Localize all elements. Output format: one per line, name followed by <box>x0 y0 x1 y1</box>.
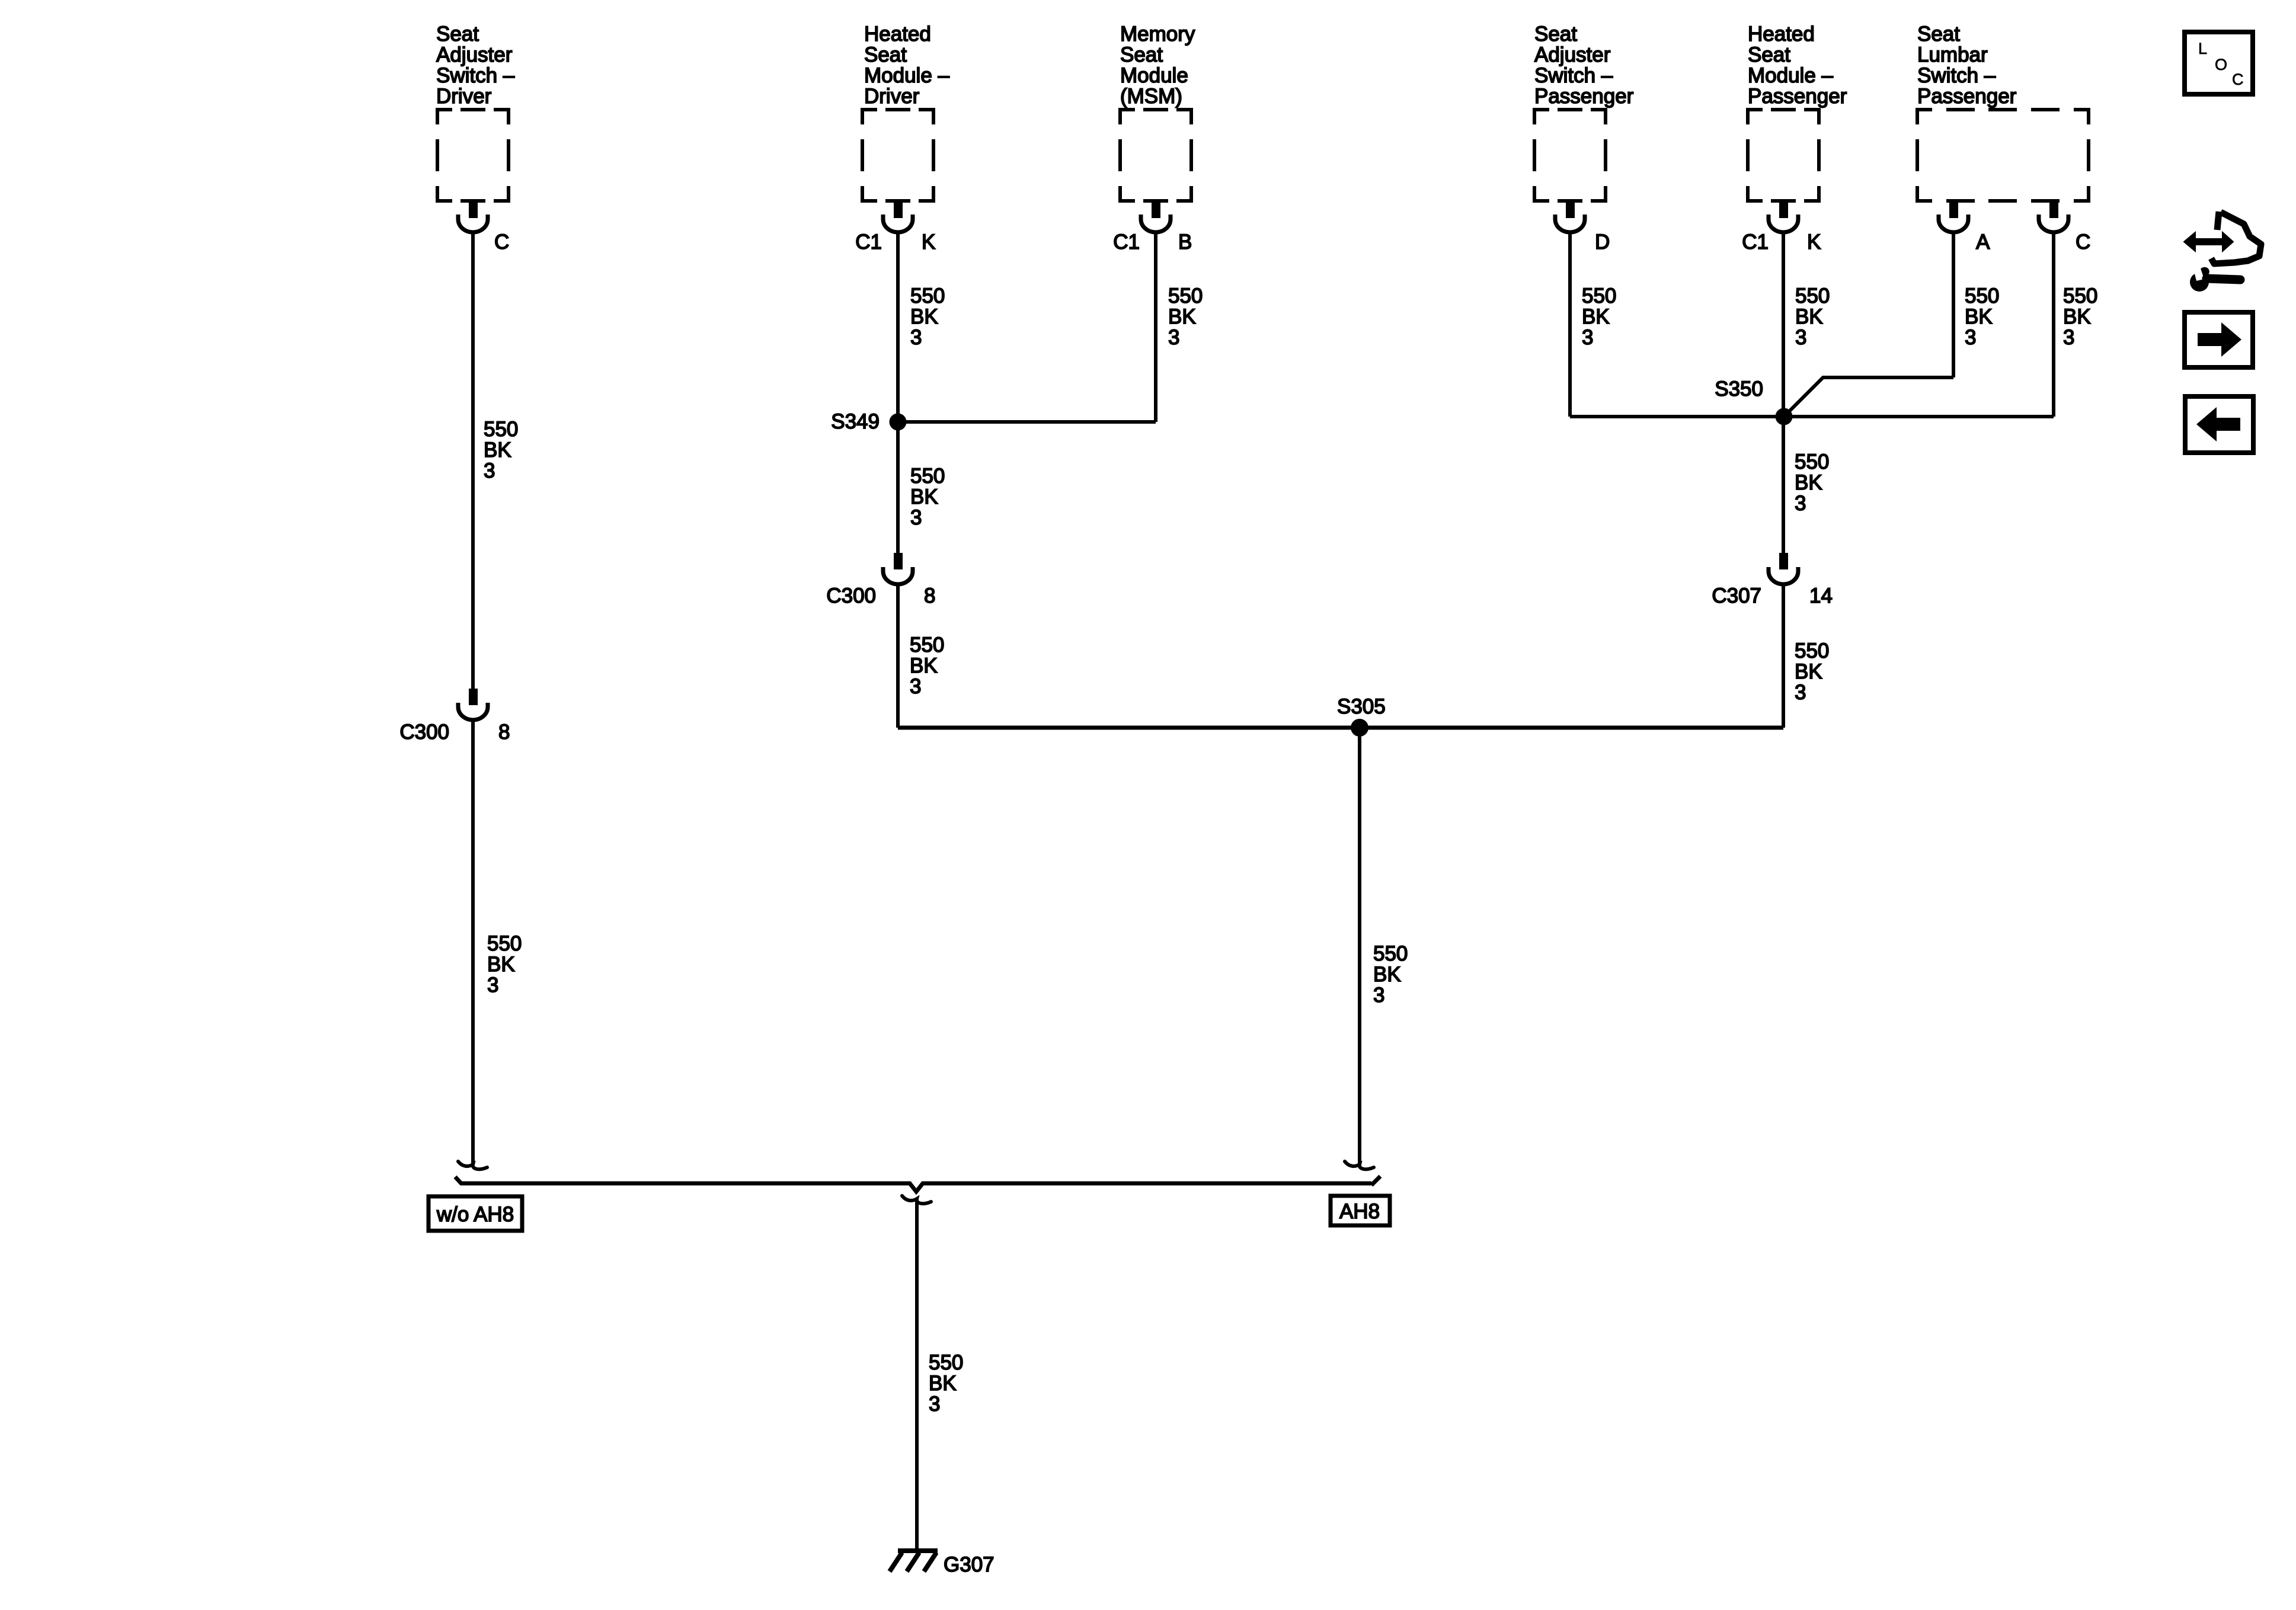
wire end squiggle (AH8 branch) <box>1345 1161 1374 1169</box>
wire 550 BK 3 from bus down to ground G307 <box>915 1199 919 1550</box>
wire end squiggle (w/o AH8 branch) <box>458 1161 487 1169</box>
inline connector C300 pin 8 (driver branch) <box>469 689 478 705</box>
wire 550 BK 3 from S305 down to AH8 bus <box>1358 728 1361 1165</box>
svg-text:Lumbar: Lumbar <box>1917 43 1988 66</box>
svg-text:3: 3 <box>1965 326 1976 349</box>
svg-text:Driver: Driver <box>436 85 492 108</box>
svg-text:BK: BK <box>1795 660 1822 683</box>
wire: horizontal run D to C through splice S350 <box>1570 415 2054 418</box>
wire 550 BK 3 from MSM pin B down to splice S349 <box>1154 232 1157 422</box>
inline connector C300 pin 8 (HSM driver branch) <box>894 553 903 569</box>
svg-text:BK: BK <box>2063 305 2091 328</box>
svg-text:S350: S350 <box>1715 377 1763 401</box>
svg-text:3: 3 <box>487 974 498 997</box>
dashed box: Heated Seat Module - Passenger <box>1748 110 1819 201</box>
svg-text:G307: G307 <box>944 1553 994 1576</box>
svg-text:3: 3 <box>910 326 922 349</box>
svg-text:Heated: Heated <box>864 23 931 46</box>
svg-text:Seat: Seat <box>864 43 907 66</box>
svg-text:L: L <box>2198 40 2207 57</box>
svg-text:550: 550 <box>1795 639 1829 662</box>
svg-text:3: 3 <box>2063 326 2074 349</box>
svg-text:Adjuster: Adjuster <box>436 43 513 66</box>
dashed box: Memory Seat Module <box>1120 110 1191 201</box>
wire: upper branch from S350 to lumbar pin A (diagonal + horizontal) <box>1784 377 1953 417</box>
svg-text:8: 8 <box>924 584 935 607</box>
connector pin A of Seat Lumbar Switch <box>1949 201 1958 218</box>
svg-text:550: 550 <box>484 418 518 441</box>
svg-text:550: 550 <box>1373 942 1408 965</box>
svg-text:A: A <box>1976 231 1990 254</box>
svg-text:Driver: Driver <box>864 85 920 108</box>
dashed box: Heated Seat Module - Driver <box>862 110 933 201</box>
svg-text:C: C <box>494 231 509 254</box>
wire 550 BK 3 from S350 down to C307 <box>1782 417 1785 553</box>
svg-text:BK: BK <box>1582 305 1610 328</box>
svg-text:BK: BK <box>910 485 938 508</box>
svg-text:D: D <box>1595 231 1610 254</box>
svg-text:w/o AH8: w/o AH8 <box>436 1203 514 1226</box>
wire 550 BK 3 from S349 down to C300 <box>896 422 900 553</box>
svg-text:BK: BK <box>910 305 938 328</box>
connector pin K of Heated Seat Module - Driver (connector C1) <box>894 201 903 218</box>
svg-text:C1: C1 <box>1742 231 1769 254</box>
inline connector C307 pin 14 <box>1779 553 1788 569</box>
svg-text:C300: C300 <box>826 584 876 607</box>
svg-text:BK: BK <box>1965 305 1993 328</box>
wire 550 BK 3 from driver switch pin C down to C300 <box>471 232 475 689</box>
bus wire with option split (w/o AH8 left, AH8 right) <box>455 1176 1380 1192</box>
svg-text:BK: BK <box>910 654 938 677</box>
svg-text:BK: BK <box>929 1372 957 1395</box>
forward arrow button <box>2185 312 2253 367</box>
svg-text:Passenger: Passenger <box>1534 85 1634 108</box>
svg-text:C: C <box>2076 231 2090 254</box>
svg-text:C: C <box>2232 71 2244 88</box>
svg-text:3: 3 <box>929 1393 940 1416</box>
svg-text:C307: C307 <box>1712 584 1761 607</box>
option box w/o AH8 <box>428 1196 522 1231</box>
wire 550 BK 3 from HSM-Driver pin K down to splice S349 <box>896 232 900 422</box>
wire from splice S349 to Memory Seat Module <box>898 420 1156 424</box>
svg-text:550: 550 <box>929 1351 963 1374</box>
svg-text:3: 3 <box>910 506 922 529</box>
wire 550 BK 3 from lumbar pin C down to splice S350 <box>2052 232 2055 417</box>
harness repair icon (double arrow, harness outline, wrench) <box>2184 212 2261 292</box>
svg-text:550: 550 <box>1795 284 1830 308</box>
svg-text:B: B <box>1178 231 1192 254</box>
svg-text:550: 550 <box>910 633 944 657</box>
svg-text:Switch –: Switch – <box>1917 64 1996 87</box>
svg-text:Seat: Seat <box>1917 23 1960 46</box>
svg-text:550: 550 <box>1582 284 1616 308</box>
wire 550 BK 3 from C300 down to splice S305 line <box>896 584 900 728</box>
svg-text:550: 550 <box>2063 284 2097 308</box>
svg-text:3: 3 <box>1582 326 1593 349</box>
connector pin C of Seat Adjuster Switch - Driver <box>469 201 478 218</box>
dashed box: Seat Lumbar Switch - Passenger <box>1917 110 2089 201</box>
connector pin K of Heated Seat Module - Passenger (connector C1) <box>1779 201 1788 218</box>
svg-text:BK: BK <box>1168 305 1196 328</box>
svg-text:Switch –: Switch – <box>1534 64 1613 87</box>
connector pin B of Memory Seat Module (connector C1) <box>1152 201 1160 218</box>
svg-text:O: O <box>2215 56 2227 73</box>
svg-text:3: 3 <box>1795 492 1806 515</box>
LOC legend icon <box>2185 32 2253 94</box>
svg-text:Memory: Memory <box>1120 23 1195 46</box>
svg-text:S349: S349 <box>831 410 880 433</box>
dashed box: Seat Adjuster Switch - Driver <box>437 110 509 201</box>
svg-text:K: K <box>922 231 935 254</box>
svg-text:8: 8 <box>498 721 510 744</box>
svg-text:550: 550 <box>1168 284 1203 308</box>
svg-text:BK: BK <box>484 438 511 462</box>
svg-text:550: 550 <box>910 465 945 488</box>
svg-text:3: 3 <box>484 459 495 482</box>
svg-text:550: 550 <box>910 284 945 308</box>
svg-text:3: 3 <box>1795 681 1806 704</box>
svg-text:3: 3 <box>1168 326 1179 349</box>
svg-text:(MSM): (MSM) <box>1120 85 1182 108</box>
svg-text:Seat: Seat <box>436 23 479 46</box>
svg-text:Heated: Heated <box>1748 23 1815 46</box>
svg-text:Seat: Seat <box>1748 43 1790 66</box>
svg-text:3: 3 <box>910 675 921 698</box>
svg-text:550: 550 <box>1795 450 1829 473</box>
dashed box: Seat Adjuster Switch - Passenger <box>1534 110 1606 201</box>
svg-text:Seat: Seat <box>1534 23 1577 46</box>
svg-text:AH8: AH8 <box>1339 1200 1380 1223</box>
wire: horizontal run between C300 branch and C307 branch through splice S305 <box>898 726 1783 730</box>
svg-text:K: K <box>1807 231 1821 254</box>
svg-text:BK: BK <box>1795 305 1823 328</box>
splice S305 junction dot <box>1351 719 1368 737</box>
wire 550 BK 3 from C307 down to splice S305 line <box>1782 584 1785 728</box>
back arrow button <box>2185 396 2253 453</box>
splice S350 junction dot <box>1776 408 1793 425</box>
squiggle at top of ground wire <box>902 1196 931 1204</box>
svg-text:Adjuster: Adjuster <box>1534 43 1611 66</box>
wire 550 BK 3 from lumbar pin A down to S350 upper branch <box>1952 232 1955 377</box>
svg-text:Switch –: Switch – <box>436 64 515 87</box>
svg-text:Passenger: Passenger <box>1917 85 2017 108</box>
splice S349 junction dot <box>890 414 907 431</box>
svg-text:Module –: Module – <box>864 64 950 87</box>
svg-text:14: 14 <box>1809 584 1833 607</box>
svg-text:550: 550 <box>1965 284 1999 308</box>
svg-text:C1: C1 <box>855 231 882 254</box>
connector pin C of Seat Lumbar Switch <box>2049 201 2058 218</box>
svg-text:BK: BK <box>1795 471 1822 494</box>
svg-text:550: 550 <box>487 932 522 955</box>
svg-text:BK: BK <box>487 953 515 976</box>
svg-text:Passenger: Passenger <box>1748 85 1847 108</box>
option box AH8 <box>1331 1196 1390 1225</box>
svg-text:C300: C300 <box>399 721 449 744</box>
ground symbol G307 <box>890 1551 938 1571</box>
svg-text:Seat: Seat <box>1120 43 1163 66</box>
svg-text:BK: BK <box>1373 963 1401 986</box>
svg-text:Module –: Module – <box>1748 64 1834 87</box>
wire 550 BK 3 from HSM-Passenger pin K down to splice S350 <box>1782 232 1785 417</box>
svg-text:Module: Module <box>1120 64 1188 87</box>
svg-text:S305: S305 <box>1337 695 1386 718</box>
svg-text:3: 3 <box>1795 326 1806 349</box>
wire 550 BK 3 from C300 down to bottom bus <box>471 720 475 1165</box>
wire 550 BK 3 from passenger switch pin D down to splice S350 <box>1568 232 1572 417</box>
svg-text:C1: C1 <box>1113 231 1140 254</box>
svg-text:3: 3 <box>1373 984 1384 1007</box>
connector pin D of Seat Adjuster Switch - Passenger <box>1566 201 1575 218</box>
